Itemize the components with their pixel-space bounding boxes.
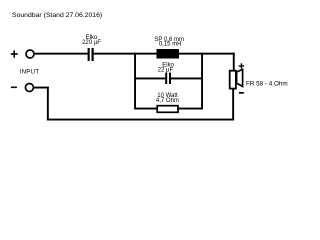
wire: + terminal to capacitor C1 (35, 53, 88, 55)
wire: bottom branch left segment (135, 108, 158, 110)
minus sign of INPUT - terminal (11, 87, 17, 89)
speaker minus label (239, 92, 244, 94)
speaker plus label (239, 63, 244, 68)
wire: bottom branch right segment (179, 108, 203, 110)
right rail of parallel group (201, 53, 203, 110)
wire: - terminal to corner (34, 87, 49, 89)
wire: capacitor C1 to speaker corner (top rail) (94, 53, 235, 55)
svg-text:4,7 Ohm: 4,7 Ohm (156, 98, 179, 104)
inductor L1 SP 0,15mH (solid bar) (157, 49, 180, 59)
input terminal circle (-) (25, 84, 33, 92)
capacitor C1 Elko 220uF (88, 48, 90, 61)
wire: middle branch right segment (171, 78, 202, 80)
wire: top rail corner down to speaker + (233, 53, 235, 71)
svg-text:INPUT: INPUT (20, 69, 40, 76)
svg-text:0,15 mH: 0,15 mH (159, 42, 182, 48)
left rail of parallel group (134, 53, 136, 110)
wire: bottom return rail (47, 119, 234, 121)
svg-text:220 µF: 220 µF (82, 40, 101, 46)
plus sign of INPUT + terminal (11, 50, 18, 57)
wire: middle branch left segment (135, 78, 165, 80)
speaker LS1 driver rect (230, 71, 236, 89)
capacitor C2 Elko 22uF (165, 73, 167, 84)
wire: input corner down (47, 87, 49, 121)
svg-text:Soundbar (Stand 27.06.2016): Soundbar (Stand 27.06.2016) (12, 12, 102, 19)
resistor R1 10W 4,7 Ohm (box) (157, 106, 178, 113)
speaker LS1 cone (237, 69, 243, 86)
svg-text:22 µF: 22 µF (158, 67, 174, 73)
wire: speaker - down to bottom rail (232, 89, 234, 121)
input terminal circle (+) (26, 50, 34, 58)
svg-text:FR 58 - 4 Ohm: FR 58 - 4 Ohm (246, 81, 288, 88)
